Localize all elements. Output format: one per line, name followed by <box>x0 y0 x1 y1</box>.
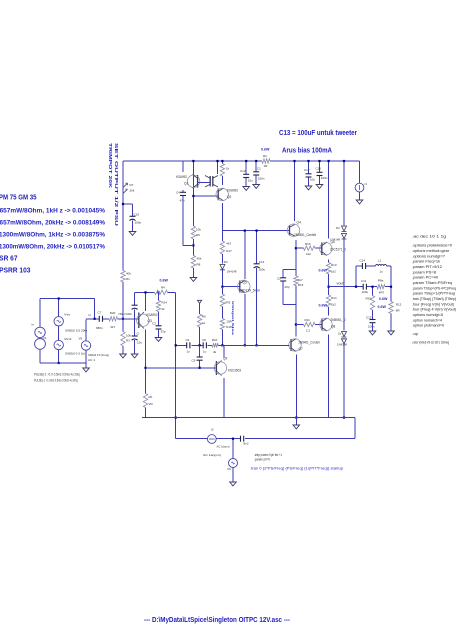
sine marks in sources <box>57 320 61 322</box>
capacitor (elec) input branch <box>132 304 138 306</box>
svg-text:10u: 10u <box>137 341 142 345</box>
wire: VR branch to bottom rail <box>145 368 147 394</box>
svg-text:C4: C4 <box>176 191 180 195</box>
diode D3 <box>342 332 347 338</box>
svg-text:0.6W: 0.6W <box>319 269 328 273</box>
capacitor C2 <box>282 269 284 277</box>
wire: elec cap branch x134.6 <box>134 292 136 305</box>
wire: vout line <box>329 286 363 288</box>
capacitor C15 100n <box>370 319 376 321</box>
svg-text:1u: 1u <box>187 350 191 354</box>
svg-text:4R7: 4R7 <box>379 291 385 295</box>
svg-text:C8: C8 <box>202 338 206 342</box>
svg-text:100n: 100n <box>321 176 328 180</box>
svg-text:PULSE(-1 +1 0 0.5ms 0.5ms 4u 2: PULSE(-1 +1 0 0.5ms 0.5ms 4u 20u) <box>34 373 80 377</box>
svg-text:In: In <box>89 313 92 317</box>
voltage source V5 <box>85 319 87 340</box>
current mirror pair <box>205 176 210 188</box>
wire: C13 branch <box>256 231 258 264</box>
svg-text:KSA992: KSA992 <box>176 175 187 179</box>
svg-text:.step param Vph list +1: .step param Vph list +1 <box>254 453 282 457</box>
svg-text:Hfe=400: Hfe=400 <box>119 312 132 316</box>
resistor R8 40k <box>191 256 195 269</box>
svg-text:4k7: 4k7 <box>110 325 115 329</box>
capacitor C3 33p <box>156 325 162 327</box>
svg-text:L1: L1 <box>378 259 382 263</box>
wire: zobel top <box>356 265 362 267</box>
svg-text:0.6W: 0.6W <box>160 279 169 283</box>
svg-text:4k7: 4k7 <box>226 241 231 245</box>
wire: input drop <box>94 299 96 319</box>
resistor R7 trimpot 20K <box>123 183 128 187</box>
RC loop: wire top <box>283 268 296 270</box>
wire: Q8 emitter down <box>328 335 330 418</box>
svg-text:.noise V(Vout) Vin oct 100 1 1: .noise V(Vout) Vin oct 100 1 100meg <box>412 341 449 345</box>
wire: I2 stub <box>359 161 361 183</box>
svg-text:Vin: Vin <box>64 313 70 317</box>
capacitor C14 <box>361 263 363 269</box>
resistor VR3 <box>220 294 224 307</box>
svg-text:R6: R6 <box>202 314 206 318</box>
svg-text:20p: 20p <box>285 285 290 289</box>
svg-text:Q5: Q5 <box>243 280 247 284</box>
capacitor Cin 10u <box>132 335 138 337</box>
svg-text:R8: R8 <box>197 263 201 267</box>
svg-text:0.6W: 0.6W <box>261 148 270 152</box>
wire: input signal line <box>86 318 99 320</box>
svg-text:1N4148: 1N4148 <box>330 238 340 242</box>
wire: Q4 collector from rail <box>294 161 296 221</box>
svg-text:D1: D1 <box>336 226 340 230</box>
svg-text:BD139_5mm: BD139_5mm <box>241 288 260 292</box>
svg-text:R4: R4 <box>161 285 165 289</box>
svg-text:R20: R20 <box>110 311 116 315</box>
wire: R14/C3 branch <box>158 292 160 300</box>
wire: Q1 drop from rail <box>192 161 194 226</box>
resistor R11 2.2 <box>304 322 316 326</box>
svg-text:1u: 1u <box>380 270 384 274</box>
capacitor C6 <box>186 342 188 348</box>
svg-text:trimpot bias: trimpot bias <box>231 301 235 336</box>
wire: Q9 base line y368 <box>146 367 216 369</box>
wire: Q5 base line <box>222 286 239 288</box>
wire: down to R11 junction <box>295 305 297 337</box>
wire: H3 <box>183 244 193 246</box>
svg-text:C6: C6 <box>186 338 190 342</box>
svg-text:.option nomarch=4: .option nomarch=4 <box>412 318 442 322</box>
svg-text:2N5551_Cordell: 2N5551_Cordell <box>294 233 316 237</box>
wire: V1 stub <box>40 298 45 300</box>
svg-text:AC 1a(sym): AC 1a(sym) <box>203 453 221 457</box>
wire: feedback vertical x175.7 <box>175 292 177 438</box>
svg-text:.options numdgt=7: .options numdgt=7 <box>412 254 445 258</box>
capacitor C7 <box>98 316 100 322</box>
svg-text:R2: R2 <box>263 154 267 158</box>
svg-text:10k: 10k <box>126 334 131 338</box>
capacitor C11 100u <box>362 284 364 290</box>
wire: bottom rail y417 <box>142 417 355 419</box>
resistor R19 + C15 branch <box>372 287 374 296</box>
capacitor C18 <box>240 436 242 442</box>
wire: H4 base line <box>193 195 218 197</box>
svg-text:Q9: Q9 <box>223 357 227 361</box>
transistor Q7 <box>291 339 296 352</box>
transistor Q5 BD139 bias <box>240 280 245 293</box>
svg-text:2N5401_Cordell: 2N5401_Cordell <box>299 341 320 345</box>
svg-text:1k: 1k <box>202 321 206 325</box>
svg-text:1657mW/8Ohm, 1kH z -> 0.0010: 1657mW/8Ohm, 1kH z -> 0.001045% <box>0 207 105 214</box>
svg-text:C11: C11 <box>361 279 367 283</box>
svg-text:.options plotwinsize=0: .options plotwinsize=0 <box>412 244 452 248</box>
inductor L1 <box>376 264 387 266</box>
svg-text:TRIMPOT 20K: TRIMPOT 20K <box>108 143 113 189</box>
svg-text:KSA992: KSA992 <box>147 313 158 317</box>
svg-text:R7: R7 <box>130 183 134 187</box>
wire: Q3 emitter up <box>145 292 147 311</box>
svg-text:R11: R11 <box>305 318 311 322</box>
wire: R5 from rail <box>221 161 223 164</box>
svg-text:VR3: VR3 <box>225 301 231 305</box>
resistor R3 10k <box>121 332 125 346</box>
wire: feedback/supply line y292 <box>135 291 155 293</box>
svg-text:SINE(0 0.5 {Freq}): SINE(0 0.5 {Freq}) <box>88 353 109 357</box>
resistor R14a 1k2 <box>326 295 330 307</box>
ground (V6) <box>230 482 237 486</box>
current source I2 <box>355 183 364 192</box>
svg-text:100n: 100n <box>368 325 375 329</box>
svg-text:C12: C12 <box>240 169 246 173</box>
svg-text:680n: 680n <box>96 326 103 330</box>
svg-text:R22: R22 <box>366 297 372 301</box>
transistor Q4 2N5551 <box>290 225 295 237</box>
svg-text:100u: 100u <box>135 221 142 225</box>
ground (C3) <box>155 338 162 342</box>
transistor Q8 <box>322 318 327 331</box>
svg-text:2.2: 2.2 <box>306 329 311 333</box>
svg-text:AC 1(sym): AC 1(sym) <box>217 445 230 449</box>
svg-text:1300mW/8Ohm, 20kHz -> 0.010517: 1300mW/8Ohm, 20kHz -> 0.010517% <box>0 244 105 251</box>
svg-text:C7: C7 <box>98 311 102 315</box>
transistor Q1 KSA992 <box>192 175 197 189</box>
svg-text:40k: 40k <box>126 272 131 276</box>
svg-text:R1: R1 <box>126 277 130 281</box>
wire+capacitor C16 <box>319 161 321 172</box>
svg-text:10u: 10u <box>310 178 315 182</box>
svg-text:Rb: Rb <box>149 395 153 399</box>
svg-text:.param TStart=PS/Freq: .param TStart=PS/Freq <box>412 281 452 285</box>
ground (input caps) <box>131 354 138 358</box>
svg-text:R15: R15 <box>298 283 304 287</box>
svg-text:0.6W: 0.6W <box>378 305 387 309</box>
wire: bias chain below H2 <box>221 231 223 241</box>
svg-text:Arus bias 100mA: Arus bias 100mA <box>282 146 332 155</box>
svg-text:R9: R9 <box>196 233 200 237</box>
resistor R17 <box>220 241 224 254</box>
wire+capacitor C12 rail decap <box>245 161 247 174</box>
svg-text:.op: .op <box>412 332 418 336</box>
wire: Q5 collector up <box>244 231 246 279</box>
svg-text:1k: 1k <box>226 167 230 171</box>
resistor R18 <box>220 319 224 330</box>
svg-text:.options method=gear: .options method=gear <box>412 249 450 253</box>
svg-text:1300mW/8Ohm, 1kHz -> 0.00387: 1300mW/8Ohm, 1kHz -> 0.003875% <box>0 232 105 239</box>
resistor R9 10k <box>191 226 195 239</box>
ground (C10) <box>129 232 136 236</box>
resistor R8a 4R7 <box>377 285 385 289</box>
svg-text:R12: R12 <box>396 303 402 307</box>
svg-text:R13: R13 <box>331 263 337 267</box>
transistor Q2 KSA992 <box>218 188 223 201</box>
svg-text:.param PIT=9/12: .param PIT=9/12 <box>412 265 442 269</box>
voltage source Vin <box>54 317 63 326</box>
svg-text:I2: I2 <box>211 428 214 432</box>
wire: H base line to Q6 <box>296 247 304 249</box>
svg-text:--- D:\MyData\LtSpice\Singlet: --- D:\MyData\LtSpice\Singleton OITPC 12… <box>144 617 291 624</box>
svg-text:1657mW/8Ohm, 20kHz -> 0.00814: 1657mW/8Ohm, 20kHz -> 0.008149% <box>0 219 105 226</box>
svg-text:8n2: 8n2 <box>244 442 249 446</box>
svg-text:R14: R14 <box>162 301 168 305</box>
svg-text:Ci: Ci <box>137 332 140 336</box>
svg-text:In: In <box>32 323 35 327</box>
transistor Q6 <box>322 242 327 256</box>
resistor R15 in loop <box>294 276 298 286</box>
wire+capacitor C1 rail decap <box>255 161 257 172</box>
svg-text:Q8: Q8 <box>331 325 335 329</box>
svg-text:1k: 1k <box>162 307 166 311</box>
svg-text:1k2: 1k2 <box>331 269 336 273</box>
wire: input bottom <box>40 362 86 364</box>
svg-text:Q1: Q1 <box>184 182 188 186</box>
svg-text:R16: R16 <box>305 242 311 246</box>
svg-text:40k: 40k <box>197 257 202 261</box>
svg-text:0.6W: 0.6W <box>319 303 328 307</box>
ground (input) <box>83 368 90 372</box>
svg-text:Q4: Q4 <box>297 221 301 225</box>
svg-text:.param TStop=(PS+PC)/Freq: .param TStop=(PS+PC)/Freq <box>412 286 456 290</box>
capacitor C10 <box>130 215 136 217</box>
ground stub at bottom rail <box>295 418 297 425</box>
svg-text:4k7: 4k7 <box>298 278 303 282</box>
svg-text:R3: R3 <box>126 339 130 343</box>
transistor Q9 KSC3503 <box>216 361 221 376</box>
svg-text:.option plotmand=0: .option plotmand=0 <box>412 324 444 328</box>
svg-text:1PM 75 GM 35: 1PM 75 GM 35 <box>0 193 37 202</box>
wire: Q3 collector down <box>145 330 147 368</box>
svg-text:47p: 47p <box>180 199 185 203</box>
wire: Q5 emitter down <box>244 294 246 345</box>
svg-text:.tran {TStop} {TStart} {TStep}: .tran {TStop} {TStart} {TStep} <box>412 297 457 301</box>
svg-text:R18: R18 <box>226 325 232 329</box>
svg-text:C17: C17 <box>304 168 310 172</box>
ground (R3) <box>120 354 127 358</box>
ground (C17) <box>305 186 312 190</box>
wire: R11 line <box>296 324 304 326</box>
svg-text:SINE(0 0.5 20k): SINE(0 0.5 20k) <box>65 329 87 333</box>
voltage source V6 <box>232 439 234 459</box>
svg-text:AC 1: AC 1 <box>88 358 95 362</box>
diode chain D1 <box>343 161 345 226</box>
svg-text:0.6W: 0.6W <box>379 297 388 301</box>
wire: trimpot branch <box>122 161 124 271</box>
svg-text:PULSE(-1 +1 0ms 0.5ms 0.5ms 4u: PULSE(-1 +1 0ms 0.5ms 0.5ms 4u 20u) <box>34 379 78 383</box>
RC loop: wire bottom <box>283 304 296 306</box>
svg-text:1N4148: 1N4148 <box>227 270 237 274</box>
ground (I2) <box>356 200 363 204</box>
svg-text:100u: 100u <box>362 290 369 294</box>
resistor R20 4k7 <box>109 317 118 321</box>
wire: Q9 emitter down <box>223 378 225 418</box>
ground (C1) <box>253 185 260 189</box>
current source I1 (AC) <box>207 435 216 444</box>
svg-text:Vin2: Vin2 <box>64 337 72 341</box>
ground (C12) <box>243 187 250 191</box>
svg-text:.param Freq=1k: .param Freq=1k <box>412 260 440 264</box>
svg-text:R14: R14 <box>331 296 337 300</box>
svg-text:R10: R10 <box>212 338 218 342</box>
capacitor C13 100u <box>254 263 260 265</box>
svg-text:C1: C1 <box>257 167 261 171</box>
resistor R16 1k2 <box>304 246 316 250</box>
wire: Q2 collector down <box>221 203 223 231</box>
svg-text:2x: 2x <box>338 332 342 336</box>
svg-text:R17: R17 <box>226 249 232 253</box>
svg-text:R8a: R8a <box>378 278 384 282</box>
svg-text:1PSRR 103: 1PSRR 103 <box>0 266 31 275</box>
svg-text:1SR 67: 1SR 67 <box>0 254 18 263</box>
svg-text:D2: D2 <box>224 260 228 264</box>
wire: Q1 base to mirror <box>198 181 210 183</box>
wire: Q6 emitter <box>328 260 330 263</box>
wire: R9-R8 <box>192 239 194 256</box>
svg-text:.param PC=40: .param PC=40 <box>412 276 438 280</box>
capacitor C4 47p <box>180 191 186 193</box>
ground (C16) <box>316 185 323 189</box>
svg-text:Q2: Q2 <box>227 195 231 199</box>
svg-text:.four {Freq} 4 V(In) V(Vout): .four {Freq} 4 V(In) V(Vout) <box>412 308 456 312</box>
svg-text:I1: I1 <box>365 182 368 186</box>
svg-text:C15: C15 <box>366 316 372 320</box>
resistor R4 (series) <box>155 290 168 294</box>
svg-text:C16: C16 <box>316 167 322 171</box>
svg-text:V5: V5 <box>79 336 83 340</box>
wire: mirror stub to rail <box>217 161 219 174</box>
svg-text:100u: 100u <box>258 268 265 272</box>
svg-text:33p: 33p <box>161 330 166 334</box>
svg-text:Q7: Q7 <box>299 347 303 351</box>
wire: Vin branch <box>58 299 60 317</box>
svg-text:KSC3503: KSC3503 <box>228 369 241 373</box>
svg-text:SET OUTPUT 1/2 PSU: SET OUTPUT 1/2 PSU <box>114 143 119 227</box>
wire: R6 branch with flag <box>198 300 202 303</box>
ground (R12) <box>388 331 395 335</box>
svg-text:V6: V6 <box>227 467 231 471</box>
resistor R2 (series in rail) <box>262 159 270 163</box>
svg-text:4k: 4k <box>213 350 217 354</box>
svg-text:C13: C13 <box>259 260 265 264</box>
svg-text:10R: 10R <box>226 320 232 324</box>
svg-text:.four {Freq} V(In) V(Vout): .four {Freq} V(In) V(Vout) <box>412 302 454 306</box>
voltage source Vin2 <box>54 340 63 349</box>
svg-text:KSA992: KSA992 <box>227 189 238 193</box>
svg-text:100n: 100n <box>258 177 265 181</box>
svg-text:C9: C9 <box>192 359 196 363</box>
voltage source V1 <box>35 327 45 337</box>
svg-text:SINE(0 0.5 1k): SINE(0 0.5 1k) <box>65 351 85 355</box>
resistor R13 1k2 <box>326 263 330 275</box>
svg-text:C2: C2 <box>277 277 281 281</box>
ground (C15) <box>369 331 376 335</box>
wire: y345 line <box>176 344 187 346</box>
svg-text:V1: V1 <box>43 336 47 340</box>
svg-text:1k2: 1k2 <box>331 303 336 307</box>
resistor R14 1k <box>156 301 160 312</box>
svg-text:10u: 10u <box>248 179 253 183</box>
wire: Q4 emitter chain <box>295 240 297 269</box>
svg-text:.ac dec 10 1 1g: .ac dec 10 1 1g <box>412 235 446 239</box>
wire+capacitor C9 <box>199 345 201 356</box>
svg-text:C13 = 100uF untuk tweeter: C13 = 100uF untuk tweeter <box>279 128 357 137</box>
svg-text:C3: C3 <box>152 322 156 326</box>
svg-text:1u: 1u <box>203 350 207 354</box>
resistor VR <box>143 394 147 408</box>
svg-text:.param ph=0: .param ph=0 <box>254 458 270 462</box>
wire: input top <box>45 298 95 300</box>
svg-text:C10: C10 <box>134 212 140 216</box>
wire: H2 Q4 base line <box>222 230 289 232</box>
resistor R1 40k <box>121 271 125 283</box>
transistor Q3 KSA992 <box>139 312 144 329</box>
svg-text:C14: C14 <box>360 259 366 263</box>
svg-text:20k: 20k <box>130 189 135 193</box>
wire+capacitor C17 <box>308 161 310 174</box>
capacitor C8 <box>202 342 204 348</box>
wire: Q7 emitter down <box>295 355 297 418</box>
resistor R12 load 8R <box>389 302 393 314</box>
wire: Q6 collector from rail <box>328 161 330 239</box>
svg-text:.param TStep=1/(PIT*Freq): .param TStep=1/(PIT*Freq) <box>412 292 455 296</box>
wire: top supply rail <box>123 160 262 162</box>
ground (R8) <box>190 278 197 282</box>
resistor R5 1k <box>220 164 224 177</box>
wire: Q1 collector w/ C4 <box>182 161 184 172</box>
svg-text:.tran 0 {2*PS/Freq} {PS/Freq}: .tran 0 {2*PS/Freq} {PS/Freq} {1/(PIT*Fr… <box>250 467 343 471</box>
wire: KSC collector stub <box>223 345 225 357</box>
resistor R10 <box>212 343 218 347</box>
wire: zobel verticals <box>355 266 357 287</box>
resistor R6 1k <box>197 314 201 327</box>
svg-text:1k2: 1k2 <box>306 252 311 256</box>
wire: trimpot wiper to C10 <box>123 203 133 205</box>
svg-text:.param PS=8: .param PS=8 <box>412 270 436 274</box>
svg-text:vout: vout <box>337 281 344 285</box>
wire: lower loop <box>175 438 207 440</box>
svg-text:10k: 10k <box>196 228 201 232</box>
svg-text:.options numdgt=5: .options numdgt=5 <box>412 313 443 317</box>
svg-text:1N4148: 1N4148 <box>337 343 347 347</box>
diode D2 <box>220 265 225 270</box>
